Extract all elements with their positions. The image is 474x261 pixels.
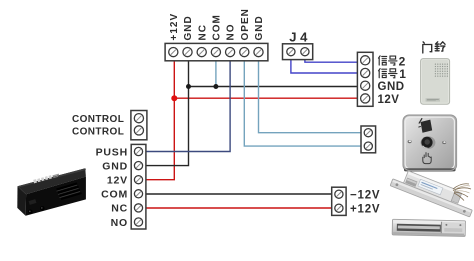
power terminal block -12V/+12V (2 screws) [332,187,346,215]
white DIP/terminal row on top back edge [33,173,59,183]
wire: blue J4 right terminal to signal-2 [305,60,358,63]
svg-text:NC: NC [111,203,128,215]
svg-text:NC: NC [197,24,208,40]
svg-text:1: 1 [399,67,406,81]
photo: exit button plate [403,115,457,171]
svg-text:12V: 12V [107,175,128,187]
exit button terminal block (2 screws) [361,126,376,153]
svg-text:NO: NO [226,24,237,41]
node: black junction at GND [186,84,191,89]
wire: black GND vertical from top strip down to PUSH-block GND row [146,61,189,166]
CONTROL terminal block (2 screws) [131,111,147,140]
svg-text:12V: 12V [378,94,400,106]
photo: electric bolt lock [390,167,474,218]
wire: blue J4 left terminal to signal-1 [291,60,358,73]
svg-text:CONTROL: CONTROL [72,127,124,138]
wire: red +12V vertical from top strip down to PUSH-block 12V row [146,61,174,180]
hand icon on plate [423,153,431,164]
svg-text:+12V: +12V [169,13,180,41]
svg-text:CONTROL: CONTROL [72,114,124,125]
wire: red horizontal to signal block 12V [174,97,357,99]
wire: red NC row to +12V terminal [146,207,332,209]
signal terminal block (4 screws) [357,52,373,106]
svg-text:+12V: +12V [350,204,380,216]
svg-text:COM: COM [101,189,128,201]
button [421,136,436,149]
photo: doorbell device [421,59,450,105]
wire: light blue from COM terminal down to GND line [215,61,217,87]
svg-text:OPEN: OPEN [240,8,251,40]
node: red junction [171,95,177,101]
wire: black horizontal to signal block GND [189,86,358,88]
wire: light blue from GND terminal to exit button block upper terminal [259,61,362,133]
svg-text:GND: GND [183,15,194,40]
photo: power supply unit [17,168,86,216]
door icon on plate [421,120,433,133]
wire: black COM row to -12V terminal [146,193,332,195]
node: black junction at COM drop [213,84,218,89]
vents on front face [57,183,82,200]
terminal strip J-top (7 screws) [165,43,268,60]
screw holes on plate [408,140,412,143]
connector J4 [283,44,313,60]
feet on front [28,210,33,215]
photo: magnetic lock [392,219,465,236]
wire: navy from NO terminal down to PUSH row [146,61,230,152]
svg-text:NO: NO [111,217,128,229]
wire: light blue from OPEN terminal to exit button block lower terminal [244,61,361,147]
label 门铃 (doorbell title) [423,42,445,53]
bolt lock wires [453,184,471,201]
svg-text:GND: GND [102,160,128,172]
svg-text:COM: COM [212,14,223,40]
label 信号2 [379,55,406,69]
svg-text:−12V: −12V [350,190,380,202]
svg-text:PUSH: PUSH [96,146,128,158]
svg-text:GND: GND [254,15,265,40]
svg-text:GND: GND [378,81,405,93]
PUSH terminal block (6 screws) [131,144,146,229]
label 信号1 [379,67,407,81]
svg-text:J 4: J 4 [289,30,308,45]
